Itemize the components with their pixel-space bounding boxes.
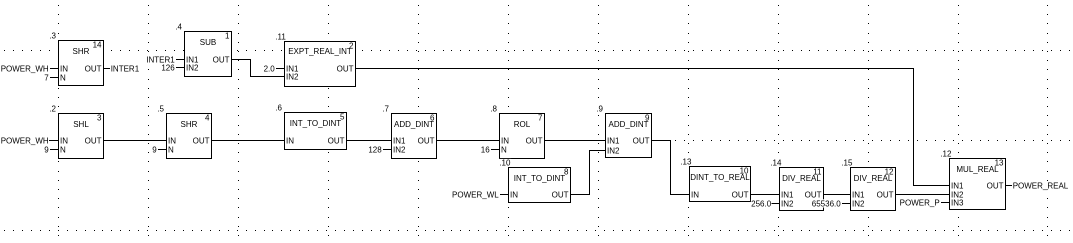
wire stub into .4 IN1 (176, 59, 184, 60)
value label 9 (152, 145, 157, 153)
value label 256.0 (751, 199, 772, 207)
svg-text:OUT: OUT (633, 136, 650, 145)
svg-text:IN: IN (691, 190, 699, 199)
svg-text:8: 8 (564, 168, 569, 177)
wire SHL .2 OUT to SHR .5 IN (104, 140, 166, 141)
svg-text:.7: .7 (382, 105, 389, 114)
svg-text:IN1: IN1 (852, 190, 865, 199)
svg-text:N: N (501, 145, 507, 154)
svg-text:IN: IN (60, 136, 68, 145)
wire stub into .14 IN2 (771, 203, 779, 204)
value label 2.0 (263, 64, 275, 72)
instance label .2 (49, 105, 57, 113)
svg-text:IN: IN (286, 136, 294, 145)
instance label .12 (940, 150, 953, 158)
svg-text:IN2: IN2 (607, 146, 620, 155)
svg-text:.8: .8 (490, 105, 497, 114)
wire SUB .4 OUT to EXPT_REAL_INT .11 IN2 (232, 59, 251, 60)
svg-text:IN1: IN1 (951, 181, 964, 190)
svg-text:16: 16 (481, 145, 490, 154)
function block .2 SHL (59, 114, 104, 159)
svg-text:OUT: OUT (877, 190, 894, 199)
svg-text:.14: .14 (770, 159, 782, 168)
value label 9 (44, 145, 49, 153)
wire stub out of .12 (1006, 185, 1012, 186)
function block .11 EXPT_REAL_INT (285, 42, 356, 87)
svg-text:IN: IN (510, 190, 518, 199)
svg-text:POWER_P: POWER_P (900, 198, 940, 207)
wire stub into .3 IN (50, 68, 58, 69)
wire stub out of .3 (104, 68, 110, 69)
svg-text:OUT: OUT (85, 64, 102, 73)
svg-text:OUT: OUT (193, 136, 210, 145)
svg-text:14: 14 (93, 41, 102, 50)
function block .8 ROL (500, 114, 545, 159)
svg-text:.12: .12 (940, 150, 952, 159)
function block .4 SUB (185, 32, 232, 77)
wire stub into .3 N (50, 77, 58, 78)
svg-text:INT_TO_DINT: INT_TO_DINT (514, 174, 566, 183)
wire stub into .15 IN2 (842, 203, 850, 204)
svg-text:.2: .2 (49, 105, 56, 114)
svg-text:IN1: IN1 (607, 136, 620, 145)
wire INT_TO_DINT .10 OUT to ADD_DINT .9 IN2 (571, 194, 590, 195)
svg-text:.5: .5 (157, 105, 164, 114)
svg-text:9: 9 (44, 145, 49, 154)
value label 7 (44, 73, 49, 81)
wire stub into .8 N (491, 149, 499, 150)
value label 128 (368, 145, 382, 153)
wire DIV_REAL .14 OUT to DIV_REAL .15 IN1 (824, 194, 850, 195)
svg-text:.10: .10 (499, 159, 511, 168)
svg-text:126: 126 (161, 63, 175, 72)
svg-text:POWER_WH: POWER_WH (1, 64, 49, 73)
function block .5 SHR (167, 114, 212, 159)
svg-text:N: N (168, 145, 174, 154)
svg-text:2: 2 (349, 42, 354, 51)
instance label .7 (382, 105, 390, 113)
wire stub into .11 IN1 (276, 68, 284, 69)
wire stub into .12 IN3 (941, 202, 949, 203)
svg-text:INT_TO_DINT: INT_TO_DINT (290, 119, 342, 128)
svg-text:256.0: 256.0 (751, 199, 772, 208)
svg-text:2.0: 2.0 (264, 64, 276, 73)
net label POWER_REAL (1012, 181, 1068, 189)
svg-text:IN2: IN2 (781, 199, 794, 208)
function block .3 SHR (59, 41, 104, 86)
svg-text:13: 13 (995, 159, 1004, 168)
function block .6 INT_TO_DINT (285, 113, 347, 150)
wire DINT_TO_REAL .13 OUT to DIV_REAL .14 IN1 (751, 194, 779, 195)
svg-text:12: 12 (885, 168, 894, 177)
svg-text:POWER_REAL: POWER_REAL (1013, 181, 1069, 190)
svg-text:65536.0: 65536.0 (812, 199, 841, 208)
svg-text:OUT: OUT (418, 136, 435, 145)
instance label .10 (499, 159, 512, 167)
svg-text:.6: .6 (275, 104, 282, 113)
svg-text:128: 128 (368, 145, 382, 154)
svg-text:OUT: OUT (987, 181, 1004, 190)
svg-text:IN: IN (168, 136, 176, 145)
svg-text:SHR: SHR (73, 47, 90, 56)
svg-text:N: N (60, 73, 66, 82)
svg-text:OUT: OUT (805, 190, 822, 199)
net label POWER_WL (452, 190, 499, 198)
svg-text:N: N (60, 145, 66, 154)
function block .7 ADD_DINT (392, 114, 437, 159)
svg-text:7: 7 (538, 114, 543, 123)
instance label .6 (275, 104, 283, 112)
svg-text:IN1: IN1 (781, 190, 794, 199)
svg-text:.13: .13 (680, 158, 692, 167)
svg-text:4: 4 (205, 114, 210, 123)
svg-text:OUT: OUT (552, 190, 569, 199)
function block .14 DIV_REAL (780, 168, 824, 211)
svg-text:11: 11 (813, 168, 822, 177)
svg-text:INTER1: INTER1 (111, 64, 140, 73)
svg-text:IN2: IN2 (286, 72, 299, 81)
instance label .14 (770, 159, 783, 167)
svg-text:10: 10 (740, 167, 749, 176)
instance label .3 (49, 32, 57, 40)
value label 65536.0 (812, 199, 842, 207)
svg-text:POWER_WH: POWER_WH (1, 136, 49, 145)
net label POWER_WH (0, 136, 49, 144)
svg-text:IN1: IN1 (393, 136, 406, 145)
instance label .13 (680, 158, 693, 166)
function block .13 DINT_TO_REAL (690, 167, 751, 202)
svg-text:.3: .3 (49, 32, 56, 41)
svg-text:OUT: OUT (85, 136, 102, 145)
instance label .4 (175, 23, 183, 31)
wire INT_TO_DINT .6 OUT to ADD_DINT .7 IN1 (347, 140, 391, 141)
svg-text:OUT: OUT (328, 136, 345, 145)
svg-text:SUB: SUB (200, 38, 216, 47)
wire stub into .2 IN (50, 140, 58, 141)
svg-text:MUL_REAL: MUL_REAL (956, 165, 999, 174)
svg-text:.11: .11 (275, 33, 286, 42)
value label 126 (161, 63, 175, 71)
value label 16 (481, 145, 491, 153)
function block .9 ADD_DINT (606, 114, 652, 158)
svg-text:IN2: IN2 (852, 199, 865, 208)
svg-text:.15: .15 (841, 159, 853, 168)
svg-text:SHL: SHL (73, 120, 89, 129)
svg-text:6: 6 (430, 114, 435, 123)
instance label .8 (490, 105, 498, 113)
svg-text:ADD_DINT: ADD_DINT (608, 120, 648, 129)
wire ROL .8 OUT to ADD_DINT .9 IN1 (545, 140, 605, 141)
svg-text:.4: .4 (175, 23, 182, 32)
instance label .15 (841, 159, 854, 167)
wire stub into .4 IN2 (176, 67, 184, 68)
instance label .9 (596, 105, 604, 113)
svg-text:ROL: ROL (514, 120, 531, 129)
instance label .11 (275, 33, 287, 41)
net label INTER1 (110, 64, 139, 72)
function block .12 MUL_REAL (950, 159, 1006, 210)
svg-text:ADD_DINT: ADD_DINT (394, 120, 434, 129)
svg-text:9: 9 (152, 145, 157, 154)
wire stub into .2 N (50, 149, 58, 150)
wire ADD_DINT .7 OUT to ROL .8 IN (437, 140, 499, 141)
function block .15 DIV_REAL (851, 168, 896, 211)
wire ADD_DINT .9 OUT to DINT_TO_REAL .13 IN (652, 140, 671, 141)
svg-text:EXPT_REAL_INT: EXPT_REAL_INT (288, 47, 352, 56)
svg-text:9: 9 (645, 114, 650, 123)
svg-text:IN: IN (60, 64, 68, 73)
svg-text:OUT: OUT (213, 55, 230, 64)
wire SHR .5 OUT to INT_TO_DINT .6 IN (212, 140, 284, 141)
svg-text:POWER_WL: POWER_WL (452, 190, 499, 199)
svg-text:IN3: IN3 (951, 198, 964, 207)
function block .10 INT_TO_DINT (509, 168, 571, 203)
wire stub into .5 N (158, 149, 166, 150)
svg-text:OUT: OUT (526, 136, 543, 145)
svg-text:3: 3 (97, 114, 102, 123)
net label POWER_P (899, 198, 940, 206)
svg-text:IN: IN (501, 136, 509, 145)
svg-text:7: 7 (44, 73, 49, 82)
wire stub into .7 IN2 (383, 149, 391, 150)
svg-text:OUT: OUT (337, 64, 354, 73)
instance label .5 (157, 105, 165, 113)
svg-text:5: 5 (340, 113, 345, 122)
svg-text:SHR: SHR (181, 120, 198, 129)
svg-text:IN2: IN2 (186, 63, 199, 72)
wire DIV_REAL .15 OUT to MUL_REAL .12 IN2 (896, 194, 949, 195)
svg-text:IN2: IN2 (393, 145, 406, 154)
net label POWER_WH (0, 64, 49, 72)
svg-text:OUT: OUT (732, 190, 749, 199)
wire EXPT_REAL_INT .11 OUT to MUL_REAL .12 IN1 (356, 68, 914, 69)
net label INTER1 (146, 55, 175, 63)
svg-text:1: 1 (225, 32, 230, 41)
wire stub into .10 IN (500, 194, 508, 195)
svg-text:.9: .9 (596, 105, 603, 114)
